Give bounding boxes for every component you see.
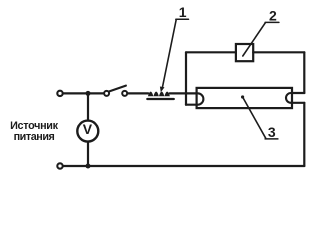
underline of label 3 bbox=[265, 138, 278, 140]
svg-text:1: 1 bbox=[179, 4, 187, 20]
label 3 bbox=[268, 124, 276, 140]
terminal bottom-left bbox=[57, 163, 62, 168]
arrowhead of leader 1 bbox=[160, 87, 165, 93]
leader line for label 1 bbox=[163, 20, 177, 87]
wire: ballast to lamp left pin bbox=[170, 92, 197, 94]
wire bottom return bbox=[63, 165, 304, 167]
switch SA blade bbox=[109, 86, 126, 92]
ballast choke L (item 1) winding bbox=[148, 92, 170, 97]
lamp right top pin bbox=[292, 92, 304, 94]
wire top: terminal to switch bbox=[63, 92, 103, 94]
lamp right electrode bbox=[286, 93, 291, 103]
leader line for label 2 bbox=[243, 23, 265, 56]
starter loop left vertical bbox=[185, 52, 187, 104]
voltmeter letter V bbox=[83, 121, 93, 137]
lamp left electrode bbox=[198, 93, 204, 104]
wire: voltmeter bottom lead bbox=[87, 142, 89, 166]
svg-text:3: 3 bbox=[268, 124, 276, 140]
svg-text:V: V bbox=[83, 121, 93, 137]
starter loop top wire left segment bbox=[186, 51, 236, 53]
lamp EL (item 3) tube body bbox=[197, 88, 292, 108]
svg-text:Источник: Источник bbox=[10, 120, 59, 132]
switch SA left contact bbox=[104, 91, 109, 96]
junction bottom (voltmeter tap) bbox=[86, 164, 91, 169]
label 1 bbox=[179, 4, 187, 20]
voltmeter PV body bbox=[77, 121, 98, 142]
underline of label 1 bbox=[176, 18, 189, 20]
leader dot for label 3 bbox=[241, 95, 244, 98]
ballast core bar bbox=[147, 98, 174, 100]
junction top (voltmeter tap) bbox=[86, 91, 91, 96]
label 2 bbox=[269, 7, 277, 23]
wire: voltmeter top lead bbox=[87, 93, 89, 120]
source label "Источник питания" bbox=[10, 120, 59, 143]
starter loop right vertical bbox=[303, 52, 305, 93]
starter S (item 2) box bbox=[236, 44, 253, 61]
starter loop top wire right segment bbox=[253, 51, 304, 53]
underline of label 2 bbox=[265, 21, 279, 23]
svg-text:питания: питания bbox=[14, 131, 55, 143]
switch SA right contact bbox=[122, 91, 127, 96]
lamp left bottom pin bbox=[186, 104, 197, 106]
wire: switch to ballast bbox=[128, 92, 149, 94]
lamp right bottom pin bbox=[292, 102, 304, 104]
svg-text:2: 2 bbox=[269, 7, 277, 23]
return wire right vertical bbox=[303, 103, 305, 166]
leader line for label 3 bbox=[243, 97, 266, 138]
terminal top-left bbox=[57, 91, 62, 96]
